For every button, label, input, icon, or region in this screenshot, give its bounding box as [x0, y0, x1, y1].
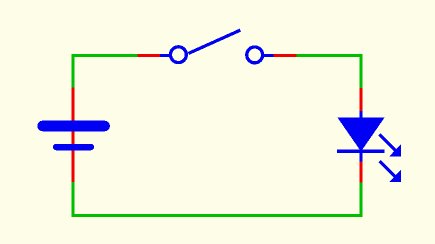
battery BT1 positive plate [43, 121, 105, 132]
switch SW1 right contact circle [247, 47, 263, 63]
LED D1 anode stub [359, 111, 362, 119]
switch SW1 lever [189, 30, 241, 53]
pin: LED D1 anode (red) [359, 88, 362, 112]
battery BT1 negative plate [56, 144, 91, 151]
wire: left vertical, lower green segment [72, 182, 75, 217]
switch SW1 right stub [264, 54, 274, 57]
pin: battery BT1 pins (red, runs under plates) [72, 88, 75, 183]
pin: LED D1 cathode (red) [359, 161, 362, 182]
wire: left vertical, upper green segment [72, 54, 75, 88]
LED D1 cathode bar [337, 150, 384, 153]
switch SW1 left stub [160, 54, 170, 57]
pin: switch SW1 pin 2 (red) [274, 54, 297, 57]
battery BT1 [43, 126, 105, 147]
wire: top horizontal, left green segment [72, 54, 138, 57]
switch SW1 [160, 30, 274, 63]
LED D1 [337, 111, 401, 182]
wire: right vertical, upper green segment [359, 54, 362, 88]
LED D1 cathode stub [359, 151, 362, 162]
wire: bottom horizontal green segment [72, 214, 363, 217]
pin: switch SW1 pin 1 (red) [138, 54, 160, 57]
wire: right vertical, lower green segment [359, 183, 362, 218]
LED D1 emission arrow 2 [380, 161, 401, 182]
LED D1 triangle body [338, 118, 385, 152]
LED D1 emission arrow 1 [380, 135, 402, 157]
switch SW1 left contact circle [171, 47, 187, 63]
wire: top horizontal, right green segment [297, 54, 363, 57]
